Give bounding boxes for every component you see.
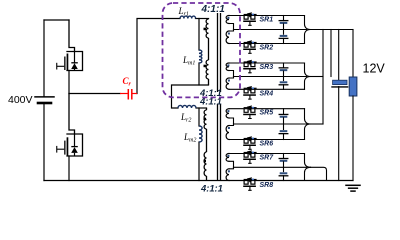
svg-text:SR2: SR2 <box>260 45 274 52</box>
svg-text:400V: 400V <box>8 94 33 106</box>
svg-text:SR6: SR6 <box>260 141 274 148</box>
svg-text:4:1:1: 4:1:1 <box>201 4 226 15</box>
svg-text:SR1: SR1 <box>260 17 274 24</box>
svg-text:SR4: SR4 <box>260 90 274 97</box>
svg-text:4:1:1: 4:1:1 <box>200 182 223 193</box>
svg-text:SR5: SR5 <box>260 110 274 117</box>
svg-text:SR3: SR3 <box>260 64 274 71</box>
svg-text:SR7: SR7 <box>260 155 275 162</box>
svg-text:SR8: SR8 <box>260 182 274 189</box>
svg-text:12V: 12V <box>363 62 386 76</box>
